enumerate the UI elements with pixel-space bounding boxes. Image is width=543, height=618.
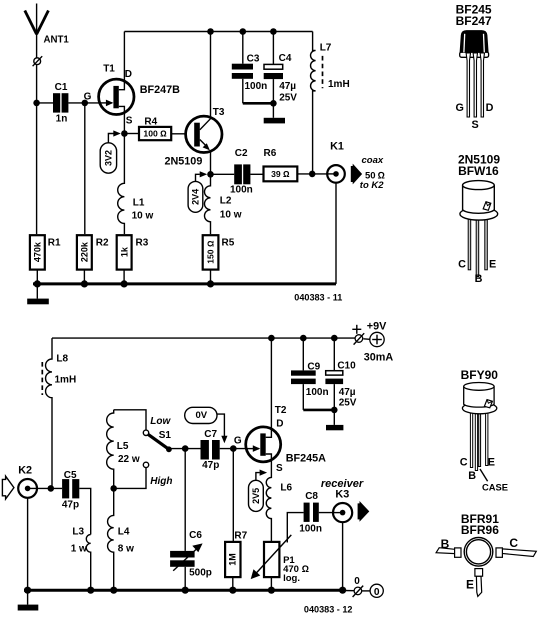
svg-text:R6: R6 — [264, 148, 277, 159]
svg-text:0: 0 — [374, 587, 380, 598]
junction R2 on rail — [81, 280, 88, 287]
svg-text:R1: R1 — [48, 237, 61, 248]
svg-text:S: S — [471, 119, 478, 131]
svg-text:T1: T1 — [103, 64, 115, 75]
node L5/L4/High junction — [110, 485, 117, 492]
wire R6 to K1 — [297, 173, 336, 175]
JFET T2 BF245A — [246, 405, 326, 474]
svg-text:1M: 1M — [228, 553, 238, 566]
svg-text:2N5109: 2N5109 — [165, 155, 203, 167]
svg-text:D: D — [486, 102, 494, 114]
measure bubble 0V — [185, 407, 228, 443]
svg-text:L2: L2 — [220, 196, 232, 207]
wire to ground stub — [333, 410, 335, 425]
+9V supply terminal — [352, 321, 393, 364]
measure bubble 3V2 — [100, 130, 121, 173]
resistor R4 100 Ohm — [139, 116, 171, 140]
svg-text:L8: L8 — [56, 354, 68, 365]
svg-text:C7: C7 — [204, 429, 217, 440]
junction K3 on rail — [339, 587, 346, 594]
svg-text:C5: C5 — [64, 470, 77, 481]
wire L5 top bracket to Low contact — [114, 410, 146, 430]
inductor L8 1mH — [42, 338, 76, 488]
junction R3 on rail — [121, 280, 128, 287]
svg-text:1mH: 1mH — [328, 79, 350, 90]
svg-text:100n: 100n — [245, 81, 268, 92]
svg-text:CASE: CASE — [482, 481, 508, 492]
svg-text:K3: K3 — [335, 489, 349, 501]
wire K2 down to rail — [27, 498, 29, 590]
node A: antenna/C1/R1 junction — [33, 100, 40, 107]
wire T2 drain to rail — [270, 338, 272, 429]
wire R1 to rail — [36, 270, 38, 284]
wire T1 drain to top rail — [123, 32, 125, 83]
svg-text:Low: Low — [150, 416, 171, 427]
wire T3 collector to rail — [210, 32, 212, 120]
wire top rail — [124, 31, 312, 33]
connector K1 — [326, 141, 344, 183]
svg-text:R4: R4 — [144, 116, 157, 127]
inductor L2 10 w — [205, 174, 242, 234]
coax arrow at K1 — [351, 164, 362, 185]
ground (bottom circuit decoupling) — [326, 425, 343, 430]
package BF245/BF247 TO-92 — [455, 2, 493, 130]
svg-text:S: S — [276, 463, 283, 474]
svg-text:R2: R2 — [96, 237, 109, 248]
svg-text:C: C — [458, 259, 466, 271]
svg-text:G: G — [455, 102, 463, 114]
svg-text:47µ: 47µ — [339, 387, 356, 398]
wire C6 drop — [184, 449, 186, 551]
svg-text:T2: T2 — [275, 405, 287, 416]
svg-text:log.: log. — [283, 573, 300, 584]
wire C8 to K3 — [319, 512, 343, 514]
junction R7 on rail — [229, 587, 236, 594]
junction C10 bottom — [331, 407, 338, 414]
wire source node to R4 — [124, 133, 139, 135]
wire High contact riser — [114, 468, 146, 489]
wire T1 source down — [123, 112, 125, 134]
svg-text:L5: L5 — [117, 441, 129, 452]
wire node G to R2 — [84, 103, 86, 234]
junction C9 on rail — [300, 335, 307, 342]
inductor L6 — [266, 461, 292, 542]
svg-text:C3: C3 — [247, 54, 260, 65]
svg-text:C4: C4 — [279, 53, 292, 64]
svg-text:BFR96: BFR96 — [461, 523, 499, 537]
svg-text:K1: K1 — [330, 141, 344, 153]
svg-text:1k: 1k — [119, 246, 129, 257]
resistor R2 220k — [77, 235, 109, 269]
wire node A to C1 — [37, 102, 53, 104]
svg-text:L4: L4 — [118, 527, 130, 538]
wire gate of T1 — [85, 102, 112, 104]
svg-text:1 w: 1 w — [71, 544, 87, 555]
svg-text:BF247B: BF247B — [140, 84, 180, 96]
node S of T1 — [121, 130, 128, 137]
svg-text:L3: L3 — [72, 527, 84, 538]
wire to ground stub — [272, 103, 274, 118]
junction T3 collector on rail — [207, 28, 214, 35]
wire C6 to rail — [184, 567, 186, 590]
svg-text:C8: C8 — [305, 491, 318, 502]
wire C1 to node G — [68, 102, 84, 104]
top rail (bottom circuit) — [52, 337, 355, 339]
wire R3 to rail — [123, 270, 125, 284]
node G — [82, 100, 89, 107]
svg-text:BF247: BF247 — [456, 14, 492, 28]
svg-text:C1: C1 — [55, 82, 68, 93]
svg-text:C2: C2 — [235, 148, 248, 159]
switch S1 — [143, 416, 172, 487]
svg-text:3V2: 3V2 — [104, 150, 114, 166]
svg-text:10 w: 10 w — [220, 210, 242, 221]
svg-text:25V: 25V — [279, 92, 297, 103]
svg-text:R3: R3 — [136, 237, 149, 248]
svg-text:D: D — [276, 419, 283, 430]
junction R5 on rail — [207, 280, 214, 287]
junction C4 on rail — [270, 28, 277, 35]
svg-text:47p: 47p — [202, 460, 219, 471]
svg-text:25V: 25V — [339, 397, 357, 408]
junction P1 on rail — [268, 587, 275, 594]
junction R1 on rail — [34, 280, 41, 287]
svg-text:BFW16: BFW16 — [458, 164, 499, 178]
wire R5 to rail — [210, 270, 212, 284]
svg-text:D: D — [125, 69, 132, 80]
wire C5 to L3 — [79, 488, 90, 534]
measure bubble 2V4 — [188, 171, 207, 212]
wire K1 down to rail — [335, 183, 337, 284]
input arrow at K2 — [2, 476, 14, 499]
svg-text:K2: K2 — [18, 464, 32, 476]
node C6 junction — [182, 445, 189, 452]
svg-text:R7: R7 — [234, 531, 247, 542]
svg-text:BFY90: BFY90 — [461, 368, 499, 382]
bottom rail (bottom circuit) — [24, 589, 343, 592]
svg-text:L1: L1 — [133, 198, 145, 209]
svg-text:E: E — [489, 259, 496, 271]
capacitor C10 47u 25V — [325, 338, 356, 410]
wire C7 to T2 gate — [220, 448, 259, 450]
wire R7 drop — [232, 449, 234, 542]
capacitor C2 100n — [230, 148, 253, 196]
svg-text:S1: S1 — [159, 430, 172, 441]
svg-text:47µ: 47µ — [279, 81, 296, 92]
svg-text:ANT1: ANT1 — [44, 35, 70, 46]
svg-text:2V4: 2V4 — [191, 189, 201, 205]
connector K3 — [321, 478, 364, 522]
junction C3 on rail — [240, 28, 247, 35]
wire node A to R1 — [36, 103, 38, 234]
measure bubble 2V5 — [249, 470, 268, 512]
svg-text:B: B — [475, 273, 483, 285]
node E: emitter/L2/C2 junction — [207, 171, 214, 178]
resistor R3 1k — [117, 235, 149, 269]
svg-text:G: G — [234, 435, 242, 446]
inductor L4 8 w — [108, 488, 135, 590]
wire emitter node to C2 — [211, 173, 235, 175]
wire P1 to rail — [270, 577, 272, 590]
svg-text:C6: C6 — [189, 530, 202, 541]
wire K3 down to rail — [342, 522, 344, 590]
resistor R6 39 Ohm — [264, 148, 298, 181]
svg-text:10 w: 10 w — [132, 211, 154, 222]
svg-text:1n: 1n — [56, 114, 68, 125]
svg-text:220k: 220k — [80, 241, 90, 262]
resistor R5 150 Ohm — [203, 235, 235, 269]
ground (top circuit decoupling) — [264, 118, 285, 124]
svg-text:0V: 0V — [195, 410, 207, 421]
svg-text:8 w: 8 w — [118, 544, 134, 555]
capacitor C3 100n — [232, 32, 267, 104]
inductor L1 10 w — [118, 134, 154, 235]
svg-text:040383 - 12: 040383 - 12 — [304, 605, 353, 615]
package BFY90 TO-72 — [460, 368, 508, 492]
svg-text:L6: L6 — [280, 482, 292, 493]
resistor R1 470k — [30, 235, 61, 269]
inductor L3 1 w — [71, 527, 91, 591]
svg-text:receiver: receiver — [321, 478, 364, 490]
wire P1 wiper to C8 — [287, 513, 303, 543]
svg-text:S: S — [126, 116, 133, 127]
svg-text:E: E — [466, 578, 474, 592]
svg-text:500p: 500p — [189, 567, 212, 578]
svg-text:100 Ω: 100 Ω — [143, 128, 167, 138]
node G of T2 — [230, 445, 237, 452]
svg-text:coax: coax — [362, 155, 384, 166]
svg-text:R5: R5 — [222, 237, 235, 248]
node L7/K1 junction — [309, 171, 316, 178]
junction C4 bottom — [270, 100, 277, 107]
capacitor C7 47p — [201, 429, 220, 471]
antenna ANT1 — [25, 4, 70, 103]
svg-text:High: High — [150, 476, 172, 487]
wire R4 to T3 base — [171, 133, 194, 135]
svg-text:C9: C9 — [307, 361, 320, 372]
svg-text:B: B — [468, 470, 476, 482]
svg-text:100n: 100n — [306, 387, 329, 398]
svg-text:C10: C10 — [337, 361, 356, 372]
svg-text:G: G — [84, 91, 92, 102]
svg-text:T3: T3 — [213, 107, 225, 118]
wire T3 emitter down — [210, 150, 212, 174]
svg-text:100n: 100n — [299, 523, 322, 534]
svg-text:22 w: 22 w — [118, 454, 140, 465]
wire R7 to rail — [232, 577, 234, 590]
svg-text:E: E — [488, 457, 495, 469]
junction T2 drain on rail — [268, 335, 275, 342]
svg-text:470k: 470k — [33, 241, 43, 262]
svg-text:39 Ω: 39 Ω — [271, 169, 290, 179]
wire K2 to C5 — [28, 487, 63, 489]
capacitor C5 47p — [62, 470, 79, 510]
junction L4 on rail — [110, 587, 117, 594]
capacitor C8 100n — [299, 491, 322, 534]
svg-text:C: C — [460, 457, 468, 469]
svg-text:B: B — [441, 537, 450, 551]
wire wiper to C7 — [169, 448, 201, 450]
transistor T3 2N5109 — [165, 107, 225, 167]
package BFR91/BFR96 — [436, 512, 536, 597]
JFET T1 BF247B — [99, 64, 181, 127]
resistor R7 1M — [225, 531, 248, 578]
wire C2 to R6 — [250, 173, 263, 175]
svg-text:L7: L7 — [320, 42, 332, 53]
output arrow at K3 — [358, 501, 370, 522]
svg-text:C: C — [509, 536, 518, 550]
capacitor C4 47u 25V — [264, 32, 298, 104]
capacitor C1 1n — [53, 82, 68, 125]
inductor L5 22 w — [107, 410, 140, 489]
bottom rail (top circuit) — [33, 282, 336, 285]
svg-text:30mA: 30mA — [364, 351, 394, 363]
capacitor C9 100n — [291, 338, 329, 410]
junction C6 on rail — [182, 587, 189, 594]
svg-text:0: 0 — [354, 576, 360, 587]
junction L8 on K2 wire — [48, 485, 55, 492]
ground (top circuit) — [27, 284, 49, 304]
wire R2 to rail — [83, 270, 85, 284]
wire C3/C4 bottoms join — [243, 102, 274, 105]
package 2N5109/BFW16 TO-39 — [458, 153, 500, 286]
svg-text:BF245A: BF245A — [286, 452, 326, 464]
junction C10 on rail — [331, 335, 338, 342]
svg-text:1mH: 1mH — [55, 375, 77, 386]
label coax 50 Ohm to K2 — [360, 155, 385, 191]
0V supply terminal — [343, 576, 384, 598]
ground (bottom circuit) — [18, 590, 39, 610]
svg-text:to K2: to K2 — [360, 180, 384, 191]
svg-text:040383 - 11: 040383 - 11 — [294, 293, 342, 303]
inductor L7 1mH — [311, 32, 350, 174]
connector K2 — [18, 464, 37, 498]
svg-text:+9V: +9V — [367, 321, 387, 333]
potentiometer P1 470 Ohm log — [251, 535, 309, 584]
variable capacitor C6 500p — [170, 530, 212, 578]
svg-text:100n: 100n — [230, 185, 253, 196]
junction L3 on rail — [87, 587, 94, 594]
junction K2 on rail — [24, 587, 31, 594]
svg-text:150 Ω: 150 Ω — [206, 240, 216, 264]
antenna break symbol — [33, 56, 43, 66]
wire C9/C10 bottoms join — [303, 409, 334, 412]
svg-text:2V5: 2V5 — [251, 488, 261, 504]
svg-text:47p: 47p — [62, 499, 79, 510]
